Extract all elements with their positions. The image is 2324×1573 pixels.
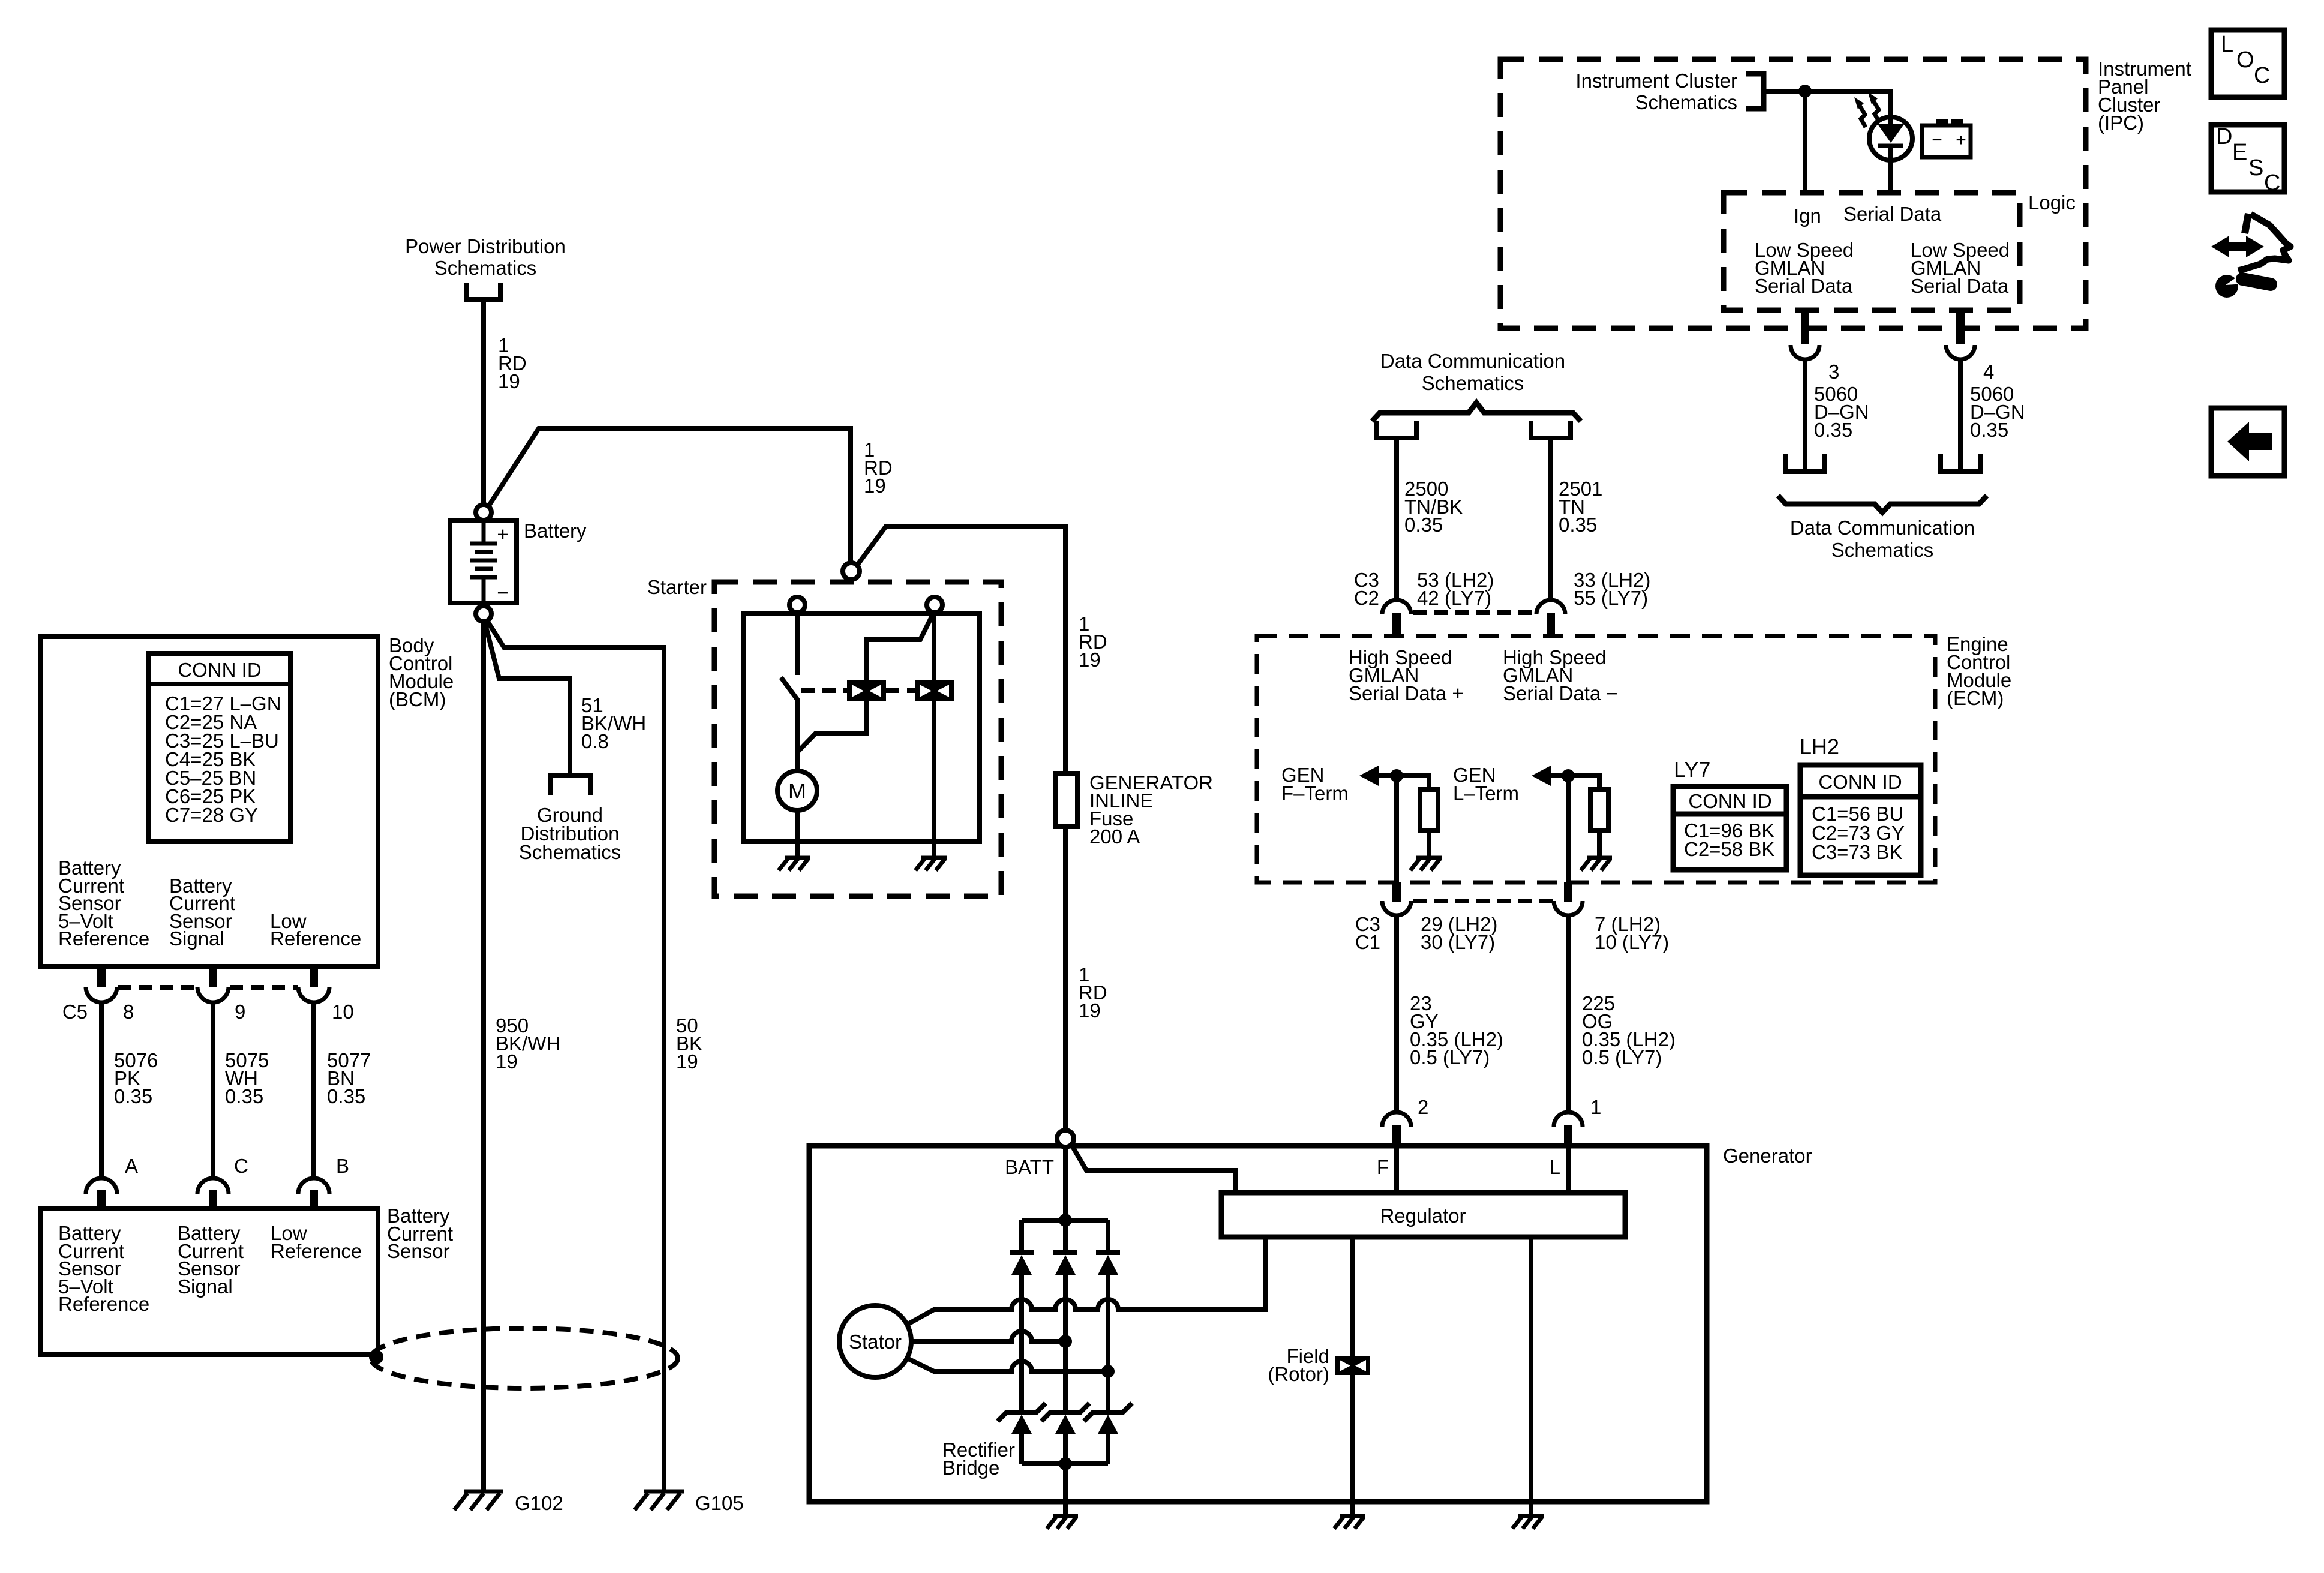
svg-text:0.8: 0.8 (581, 730, 609, 752)
label: connector C3 C2 (1354, 569, 1379, 609)
label: pin 7 (LH2) 10 (LY7) (1595, 913, 1669, 953)
connector: generator pin 2 (1382, 1112, 1411, 1127)
wire: fuse to generator BATT (1063, 827, 1068, 1130)
svg-text:0.35: 0.35 (1970, 419, 2008, 441)
label: wire 23 GY 0.35/0.5 (1410, 992, 1503, 1068)
svg-text:Sensor: Sensor (387, 1240, 450, 1262)
label: wire 2501 TN 0.35 (1559, 478, 1602, 536)
fuse: generator inline fuse 200 A (1056, 773, 1077, 827)
off-page connector: data comm (pin 4) (1941, 454, 1980, 472)
resistor: L-term pull-up (1590, 789, 1608, 831)
label: connector C3 C1 (1355, 913, 1380, 953)
wire: field coil to ground (1350, 1375, 1355, 1516)
icon: LOC box (2211, 30, 2284, 97)
label: Instrument Cluster Schematics (1575, 70, 1737, 113)
ground G102 (454, 1491, 503, 1510)
svg-text:Schematics: Schematics (1635, 91, 1737, 113)
linkage dashes: solenoid (801, 688, 915, 693)
svg-text:Serial Data: Serial Data (1911, 275, 2009, 297)
brace: data communication (top) (1372, 403, 1581, 421)
connector: ECM cavity 7/10 (1554, 901, 1583, 915)
svg-text:Starter: Starter (647, 576, 707, 598)
svg-text:19: 19 (1079, 999, 1101, 1022)
svg-text:A: A (125, 1155, 138, 1177)
ground: starter motor (779, 858, 810, 870)
label: Data Communication Schematics (bottom) (1790, 517, 1975, 561)
switch: solenoid contact blade (781, 677, 798, 700)
label: wire 5060 D-GN 0.35 (left) (1814, 383, 1869, 441)
label: Instrument Panel Cluster (IPC) (2098, 58, 2191, 134)
resistor: F-term pull-up (1420, 789, 1438, 831)
svg-text:C: C (234, 1155, 248, 1177)
pin stub: sensor B (310, 1190, 318, 1208)
svg-text:4: 4 (1983, 361, 1994, 383)
label: wire 950 BK/WH 19 (496, 1014, 560, 1073)
svg-text:Signal: Signal (178, 1275, 233, 1298)
svg-text:10 (LY7): 10 (LY7) (1595, 931, 1669, 953)
diode: negative rectifier 2 (avalanche) (1041, 1403, 1089, 1464)
svg-text:Reference: Reference (58, 1293, 149, 1315)
svg-text:B: B (336, 1155, 349, 1177)
arrow: GEN L-Term signal (1532, 766, 1551, 786)
svg-text:0.35: 0.35 (225, 1085, 263, 1107)
svg-text:+: + (497, 523, 508, 545)
svg-text:CONN ID: CONN ID (178, 659, 261, 681)
diode: positive rectifier 2 (1053, 1220, 1077, 1411)
svg-text:55 (LY7): 55 (LY7) (1574, 587, 1648, 609)
label: GEN L-Term (1453, 764, 1519, 804)
ground: generator rectifier (1047, 1516, 1078, 1529)
pin stub: BCM pin 9 (209, 966, 217, 987)
svg-text:Data Communication: Data Communication (1380, 350, 1565, 372)
connector: sensor pin B (298, 1178, 329, 1194)
label: Battery Current Sensor (387, 1205, 453, 1262)
wire: generator F terminal to regulator (1394, 1146, 1399, 1193)
pin stub: ECM pin 7/10 (1564, 882, 1572, 902)
node: ign junction (1798, 85, 1812, 98)
wire: L resistor to ground (1597, 831, 1602, 858)
ground: F-term resistor (1410, 858, 1442, 870)
pin stub: ECM serial data + (1392, 613, 1401, 635)
svg-text:Bridge: Bridge (942, 1457, 999, 1479)
connector C5 cavity 9 (197, 987, 229, 1002)
svg-text:LY7: LY7 (1674, 757, 1710, 782)
wire: stator phase 3 (907, 1358, 1108, 1371)
svg-text:−: − (497, 581, 508, 604)
pin stub: generator L (1564, 1125, 1572, 1146)
ground: starter solenoid (915, 858, 947, 870)
icon: battery symbol (IPC) (1922, 119, 1971, 157)
diode: positive rectifier 1 (1010, 1220, 1034, 1411)
connector: sensor pin C (197, 1178, 229, 1194)
svg-text:Reference: Reference (58, 927, 149, 950)
label: wire 1 RD 19 (below fuse) (1079, 963, 1107, 1022)
pin stub: ECM pin 29/30 (1392, 882, 1401, 902)
svg-text:1: 1 (1590, 1096, 1601, 1118)
wire: rectifier to ground (1063, 1464, 1068, 1516)
connector: ECM serial data - pin (1536, 600, 1565, 614)
wire: regulator case ground (1529, 1237, 1533, 1516)
wire: solenoid B to switch (795, 613, 800, 675)
svg-text:19: 19 (498, 370, 520, 392)
node: battery negative terminal (476, 606, 491, 622)
svg-text:D: D (2216, 124, 2232, 149)
wire: BATT to regulator (1071, 1145, 1236, 1193)
module: Battery Current Sensor (40, 1208, 378, 1355)
node: F-term junction (1390, 769, 1403, 782)
label: pin 53 (LH2) 42 (LY7) (1417, 569, 1494, 609)
svg-text:Schematics: Schematics (519, 841, 621, 863)
svg-text:C: C (2264, 170, 2280, 196)
node: phase 3 junction (1101, 1365, 1115, 1378)
wire: cluster feed (1764, 91, 1891, 118)
label: Engine Control Module (ECM) (1947, 633, 2011, 709)
svg-text:10: 10 (332, 1001, 354, 1023)
label: GENERATOR INLINE Fuse 200 A (1089, 772, 1213, 848)
label: pin 33 (LH2) 55 (LY7) (1574, 569, 1650, 609)
motor M (777, 771, 817, 810)
coil: field rotor winding (1335, 1356, 1370, 1375)
svg-text:200 A: 200 A (1089, 825, 1140, 848)
wire: battery negative branch to ground distribution (485, 622, 570, 773)
svg-text:0.35: 0.35 (327, 1085, 365, 1107)
svg-text:Data Communication: Data Communication (1790, 517, 1975, 539)
svg-text:C5: C5 (62, 1001, 88, 1023)
svg-text:Schematics: Schematics (1422, 372, 1524, 394)
diode: negative rectifier 3 (avalanche) (1084, 1403, 1132, 1464)
svg-text:C: C (2254, 63, 2270, 88)
label: Power Distribution Schematics (405, 235, 566, 279)
pin stub: sensor C (209, 1190, 217, 1208)
off-page connector: power distribution (467, 283, 500, 299)
svg-text:0.35: 0.35 (1559, 514, 1597, 536)
svg-text:Schematics: Schematics (1831, 539, 1934, 561)
svg-text:Regulator: Regulator (1380, 1205, 1466, 1227)
node: battery positive terminal (476, 505, 491, 520)
wire: power feed to battery + (481, 302, 486, 505)
label: wire 2500 TN/BK 0.35 (1404, 478, 1463, 536)
connector: ECM serial data + pin (1382, 600, 1411, 614)
terminal: starter solenoid S (927, 597, 942, 613)
svg-text:F: F (1377, 1156, 1389, 1178)
wire 225 OG to generator L (1566, 915, 1571, 1112)
node: phase 2 junction (1059, 1335, 1072, 1348)
connector: IPC cavity 4 (1946, 345, 1975, 359)
connector C5 cavity 10 (298, 987, 329, 1002)
svg-text:−: − (1932, 130, 1942, 150)
label: Low Speed GMLAN Serial Data (left) (1755, 239, 1854, 297)
label: High Speed GMLAN Serial Data - (1503, 646, 1618, 704)
connector: ECM C3/C1 cavity (1382, 901, 1411, 915)
label: Rectifier Bridge (942, 1439, 1015, 1479)
table: BCM CONN ID (149, 653, 290, 842)
icon: DESC box (2211, 124, 2284, 196)
connector link dashes (ECM top) (1413, 610, 1535, 615)
wire: L-term to bottom pin (1566, 776, 1571, 882)
svg-text:(BCM): (BCM) (389, 688, 446, 710)
svg-text:Power Distribution: Power Distribution (405, 235, 566, 257)
svg-text:(ECM): (ECM) (1947, 687, 2004, 709)
svg-text:Ign: Ign (1794, 205, 1821, 227)
svg-text:Reference: Reference (271, 1240, 362, 1262)
pin stub: IPC pin 4 (1956, 308, 1965, 344)
connector: sensor pin A (86, 1178, 117, 1194)
svg-text:CONN ID: CONN ID (1818, 771, 1902, 793)
wire: stator phase 1 to regulator (907, 1237, 1266, 1325)
label: wire 225 OG 0.35/0.5 (1582, 992, 1676, 1068)
terminal: starter solenoid B (789, 597, 805, 613)
off-page bracket: instrument cluster schematics (1746, 74, 1764, 109)
pin stub: sensor A (97, 1190, 106, 1208)
svg-text:F–Term: F–Term (1281, 782, 1349, 804)
label: BCM pin names (58, 857, 361, 950)
connector link dashes C5 (118, 985, 298, 990)
module: Engine Control Module (dashed) (1257, 636, 1935, 882)
svg-text:C7=28 GY: C7=28 GY (165, 804, 258, 826)
wire: battery + to starter/generator feed (487, 428, 851, 563)
wire: ign to logic (1803, 91, 1807, 193)
pin stub: BCM pin 8 (97, 966, 106, 987)
svg-text:Logic: Logic (2028, 191, 2076, 214)
regulator (1221, 1193, 1625, 1237)
module: Instrument Panel Cluster (dashed) (1500, 59, 2086, 328)
ground: field winding (1334, 1516, 1365, 1529)
wire: solenoid S blade to pull-in coil (866, 613, 933, 680)
icon: back arrow box (2211, 408, 2284, 476)
label: wire 51 BK/WH 0.8 (581, 694, 646, 752)
node: rectifier ground junction (1059, 1457, 1072, 1470)
wire: L-term node (1550, 776, 1599, 789)
off-page connector: ground distribution (550, 776, 590, 795)
node: rectifier bus / BATT junction (1059, 1214, 1072, 1227)
svg-text:BATT: BATT (1005, 1156, 1054, 1178)
label: Data Communication Schematics (top) (1380, 350, 1565, 394)
svg-text:C2=58 BK: C2=58 BK (1684, 838, 1774, 860)
svg-text:C1: C1 (1355, 931, 1380, 953)
connector: generator pin 1 (1554, 1112, 1583, 1127)
svg-text:19: 19 (1079, 649, 1101, 671)
module: Body Control Module (BCM) (40, 637, 378, 966)
rectifier top bus (1022, 1218, 1108, 1223)
svg-text:Battery: Battery (524, 520, 587, 542)
label: Body Control Module (BCM) (389, 634, 454, 710)
svg-text:G102: G102 (515, 1492, 563, 1514)
label: Field (Rotor) (1268, 1345, 1329, 1385)
pin stub: IPC pin 3 (1801, 308, 1809, 344)
wire: BATT to rectifier bus (1063, 1147, 1068, 1220)
svg-text:Generator: Generator (1723, 1145, 1812, 1167)
svg-text:(Rotor): (Rotor) (1268, 1363, 1329, 1385)
wire: generator L terminal to regulator (1566, 1146, 1571, 1193)
label: wire 1 RD 19 (above fuse) (1079, 613, 1107, 671)
svg-text:19: 19 (864, 475, 886, 497)
wire: junction to generator fuse feed (857, 526, 1065, 773)
starter inner case (743, 613, 980, 842)
wire 5077 BN (311, 1002, 316, 1177)
svg-text:Instrument Cluster: Instrument Cluster (1575, 70, 1737, 92)
node: L-term junction (1562, 769, 1575, 782)
label: Low Speed GMLAN Serial Data (right) (1911, 239, 2010, 297)
svg-text:2: 2 (1418, 1096, 1428, 1118)
svg-text:L–Term: L–Term (1453, 782, 1519, 804)
svg-text:C3=73 BK: C3=73 BK (1812, 841, 1902, 863)
svg-text:Serial Data: Serial Data (1755, 275, 1853, 297)
indicator: charge telltale lamp (1869, 117, 1912, 160)
coil: starter pull-in winding (847, 680, 886, 701)
label: High Speed GMLAN Serial Data + (1349, 646, 1464, 704)
label: wire 5060 D-GN 0.35 (right) (1970, 383, 2025, 441)
svg-text:Reference: Reference (270, 927, 361, 950)
svg-text:LH2: LH2 (1800, 734, 1839, 759)
svg-text:(IPC): (IPC) (2098, 112, 2144, 134)
wire 2500 TN/BK (1394, 440, 1399, 601)
ground: L-term resistor (1581, 858, 1612, 870)
svg-text:0.35: 0.35 (1814, 419, 1852, 441)
svg-text:8: 8 (123, 1001, 134, 1023)
pin stub: generator F (1392, 1125, 1401, 1146)
wire: hold-in coil to ground (932, 701, 936, 858)
svg-text:Signal: Signal (169, 927, 224, 950)
svg-text:S: S (2248, 155, 2263, 181)
wire: hold-in coil feed (932, 613, 936, 680)
table: LH2 CONN ID (1800, 765, 1921, 875)
wire: stator phase 2 (911, 1331, 1065, 1341)
svg-text:0.5 (LY7): 0.5 (LY7) (1582, 1046, 1662, 1068)
off-page connector: data comm (pin 3) (1785, 454, 1825, 472)
ground: regulator (1512, 1516, 1544, 1529)
svg-text:Serial Data −: Serial Data − (1503, 682, 1618, 704)
wire: lamp to logic (1888, 160, 1893, 193)
diode: negative rectifier 1 (avalanche) (998, 1403, 1046, 1464)
svg-text:G105: G105 (695, 1492, 744, 1514)
svg-text:42 (LY7): 42 (LY7) (1417, 587, 1491, 609)
svg-text:Serial Data: Serial Data (1843, 203, 1942, 225)
wire: motor to ground (795, 810, 800, 858)
wire 23 GY to generator F (1394, 915, 1399, 1112)
arrow: GEN F-Term signal (1359, 766, 1379, 786)
wire 5060 D-GN (pin 4) (1958, 359, 1963, 470)
svg-text:0.35: 0.35 (114, 1085, 152, 1107)
wire 5060 D-GN (pin 3) (1803, 359, 1807, 470)
svg-text:E: E (2232, 140, 2247, 165)
dashed ellipse: sensor mounting loop (371, 1328, 678, 1388)
battery B1 (450, 521, 517, 604)
label: wire 5077 BN 0.35 (327, 1049, 371, 1107)
svg-text:Stator: Stator (849, 1331, 902, 1353)
node: starter feed junction (843, 563, 860, 580)
ground G105 (635, 1491, 684, 1510)
module: Logic (dashed) (1724, 193, 2020, 310)
icon: diagnostic arrows and wrench (2211, 214, 2290, 298)
svg-text:O: O (2236, 47, 2254, 73)
wire: regulator to field coil (1350, 1237, 1355, 1356)
label: wire 50 BK 19 (676, 1014, 702, 1073)
svg-text:30 (LY7): 30 (LY7) (1421, 931, 1495, 953)
connector: IPC cavity 3 (1791, 345, 1819, 359)
pin stub: ECM serial data - (1547, 613, 1555, 635)
table: LY7 CONN ID (1673, 786, 1786, 870)
svg-text:+: + (1956, 130, 1966, 150)
wire: pull-in coil to motor (797, 701, 866, 752)
label: wire 5076 PK 0.35 (114, 1049, 158, 1107)
pin stub: BCM pin 10 (310, 966, 318, 987)
label: GEN F-Term (1281, 764, 1349, 804)
node: sensor case ground junction (369, 1350, 383, 1364)
wire: switch to motor (795, 698, 800, 771)
wire: battery negative branch to G105 (487, 620, 664, 1491)
brace: data communication (bottom) (1778, 496, 1987, 512)
rectifier bottom bus (1022, 1461, 1108, 1466)
diode: positive rectifier 3 (1096, 1220, 1120, 1411)
svg-text:Schematics: Schematics (434, 257, 537, 279)
svg-text:CONN ID: CONN ID (1688, 790, 1771, 812)
connector link dashes (ECM bottom) (1413, 899, 1553, 903)
node: generator BATT terminal (1057, 1130, 1074, 1147)
wire: F-term node (1377, 776, 1429, 789)
svg-text:19: 19 (496, 1050, 518, 1073)
svg-text:M: M (788, 779, 806, 803)
label: wire 1 RD 19 (to starter) (864, 439, 893, 497)
svg-text:0.5 (LY7): 0.5 (LY7) (1410, 1046, 1490, 1068)
off-page connector: data comm wire 2501 (1531, 421, 1571, 438)
wire: F resistor to ground (1427, 831, 1431, 858)
off-page connector: data comm wire 2500 (1377, 421, 1416, 438)
label: wire 5075 WH 0.35 (225, 1049, 269, 1107)
wire 5076 PK (99, 1002, 104, 1177)
label: Ground Distribution Schematics (519, 804, 621, 863)
stator (839, 1305, 911, 1377)
label: sensor pin names (58, 1222, 362, 1315)
wire 2501 TN (1548, 440, 1553, 601)
connector C5 cavity 8 (86, 987, 117, 1002)
wire: F-term to bottom pin (1394, 776, 1399, 882)
label: pin 29 (LH2) 30 (LY7) (1421, 913, 1497, 953)
svg-text:L: L (1550, 1156, 1560, 1178)
svg-text:9: 9 (235, 1001, 245, 1023)
svg-text:0.35: 0.35 (1404, 514, 1443, 536)
module: Generator (809, 1146, 1707, 1502)
module: Starter (dashed) (714, 582, 1001, 896)
svg-text:19: 19 (676, 1050, 698, 1073)
wire 5075 WH (211, 1002, 215, 1177)
svg-text:3: 3 (1828, 361, 1839, 383)
wire: battery negative main ground run to G102 (481, 622, 486, 1491)
svg-text:C2: C2 (1354, 587, 1379, 609)
indicator arrows: lamp rays (1854, 92, 1879, 127)
svg-text:L: L (2221, 32, 2233, 57)
svg-text:Serial Data +: Serial Data + (1349, 682, 1464, 704)
coil: starter hold-in winding (915, 680, 954, 701)
label: wire 1 RD 19 (battery feed) (498, 334, 527, 392)
